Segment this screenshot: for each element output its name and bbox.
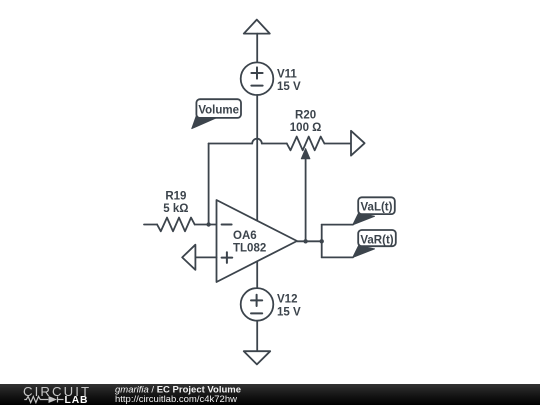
svg-text:http://circuitlab.com/c4k72hw: http://circuitlab.com/c4k72hw bbox=[115, 394, 237, 405]
svg-text:15 V: 15 V bbox=[277, 81, 301, 93]
svg-text:R19: R19 bbox=[165, 191, 186, 203]
svg-text:100 Ω: 100 Ω bbox=[290, 122, 322, 134]
svg-text:15 V: 15 V bbox=[277, 306, 301, 318]
svg-text:LAB: LAB bbox=[65, 395, 89, 405]
svg-text:VaL(t): VaL(t) bbox=[361, 202, 393, 214]
svg-text:V11: V11 bbox=[277, 69, 297, 81]
svg-text:TL082: TL082 bbox=[233, 242, 266, 254]
svg-text:OA6: OA6 bbox=[233, 230, 257, 242]
svg-text:5 kΩ: 5 kΩ bbox=[163, 203, 188, 215]
svg-text:VaR(t): VaR(t) bbox=[360, 234, 393, 246]
svg-text:V12: V12 bbox=[277, 294, 297, 306]
svg-text:R20: R20 bbox=[295, 110, 316, 122]
svg-text:Volume: Volume bbox=[198, 105, 239, 117]
